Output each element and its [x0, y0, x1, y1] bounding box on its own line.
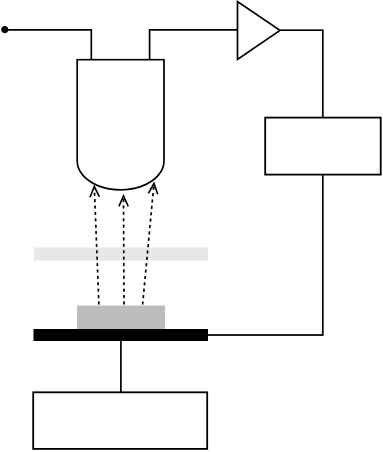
- emission arrow left (dashed): [90, 187, 99, 305]
- sample (gray slab): [77, 306, 165, 330]
- amplifier A1: [238, 2, 281, 60]
- counter box: [265, 118, 381, 175]
- wire: terminal dot to detector top-left pin: [5, 30, 92, 60]
- wire: amplifier output to counter box: [280, 30, 323, 117]
- wire: counter box to sample stage: [208, 175, 323, 335]
- wire: detector top-right pin to amplifier input: [150, 30, 238, 60]
- detector tube (PMT): [77, 60, 164, 190]
- emission arrow middle (dashed): [119, 196, 128, 305]
- wire: stage to heater box: [120, 341, 122, 392]
- terminal dot (HV input node): [1, 26, 8, 33]
- filter bar: [34, 248, 208, 261]
- emission arrow right (dashed): [143, 183, 158, 304]
- heater box: [33, 392, 207, 449]
- sample stage (black bar): [34, 329, 209, 341]
